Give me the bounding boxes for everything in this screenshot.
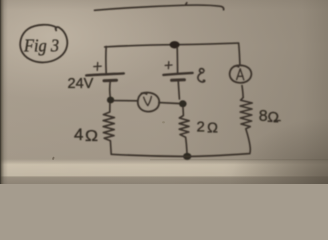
battery B1 24V positive plate [86, 73, 124, 75]
wire: bottom bus from left corner through node C to right corner [111, 154, 249, 157]
wire: node T down to battery B2 [176, 48, 178, 73]
svg-text:Ω: Ω [267, 110, 280, 127]
svg-text:Ω: Ω [85, 128, 98, 145]
node C junction dot on bottom bus [183, 153, 191, 160]
wire: B1 negative plate down to node A [109, 81, 112, 98]
wire: left branch vertical from top bus down to battery B1 [105, 46, 107, 73]
wire: top bus from top-left corner to top-right corner [105, 43, 239, 47]
resistor R1 4 ohm zigzag with stub from node A [103, 104, 114, 155]
resistor R2 2 ohm zigzag with stubs [179, 107, 189, 153]
voltmeter V1 letter V [144, 96, 152, 105]
node B junction dot [179, 100, 187, 107]
battery B2 positive plate [163, 73, 192, 75]
wire: top-right corner down to ammeter A1 [239, 43, 240, 64]
voltmeter V1 circle [138, 93, 159, 112]
label: Fig 3 enclosing circle [20, 25, 67, 63]
wire: bottom edge line of previous figure at top of page [95, 3, 224, 11]
svg-text:4: 4 [74, 125, 83, 144]
ammeter A1 letter A [237, 69, 244, 80]
battery B1 24V negative plate [104, 79, 117, 83]
wire: battery B2 negative plate down to node B [178, 80, 179, 99]
svg-text:24V: 24V [68, 76, 94, 92]
resistor R3 8 ohm zigzag [240, 97, 252, 153]
svg-text:2: 2 [197, 119, 205, 136]
node A junction dot [107, 97, 114, 104]
ammeter A1 circle [230, 65, 252, 83]
node T junction dot on top bus [170, 41, 180, 48]
label: + polarity of B2 [165, 62, 172, 69]
label: + polarity of B1 [94, 63, 101, 71]
label: 8 ohm value of R3 (omega tail dash) [276, 120, 281, 122]
wire: node A to voltmeter V1 [114, 100, 138, 102]
label: EMF epsilon of B2 [198, 69, 205, 82]
wire: voltmeter V1 to node B [159, 102, 179, 105]
svg-text:Ω: Ω [207, 120, 218, 136]
battery B2 negative plate [172, 78, 185, 82]
wire: ammeter A1 down to resistor R3 [242, 86, 243, 98]
svg-text:Fig 3: Fig 3 [23, 36, 59, 56]
